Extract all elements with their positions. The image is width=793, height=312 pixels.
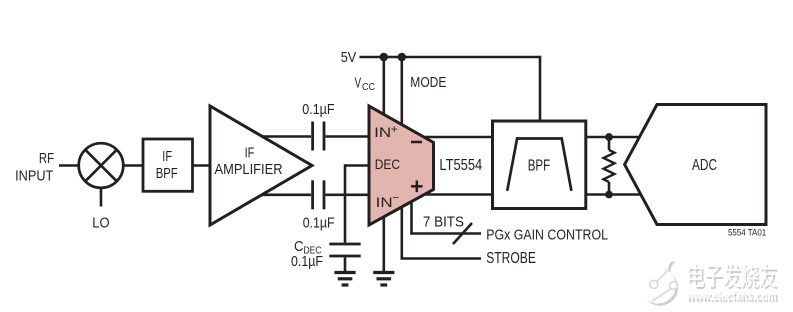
svg-text:DEC: DEC [375,156,400,172]
svg-text:MODE: MODE [410,74,446,91]
svg-text:BPF: BPF [156,165,178,182]
svg-text:INPUT: INPUT [15,167,53,184]
svg-text:PGx GAIN CONTROL: PGx GAIN CONTROL [486,227,608,244]
svg-text:+: + [391,124,398,136]
svg-text:0.1µF: 0.1µF [303,215,335,232]
svg-text:IF: IF [162,148,172,165]
svg-text:IN: IN [376,194,393,210]
svg-text:LT5554: LT5554 [439,157,482,174]
svg-text:5554 TA01: 5554 TA01 [728,227,766,238]
svg-text:IN: IN [374,124,391,140]
svg-text:RF: RF [39,150,54,167]
svg-text:电子发烧友: 电子发烧友 [686,263,777,291]
svg-text:0.1µF: 0.1µF [291,253,323,270]
svg-text:www.elecfans.com: www.elecfans.com [685,288,776,303]
svg-text:IF: IF [245,144,255,161]
svg-text:AMPLIFIER: AMPLIFIER [215,161,283,178]
svg-text:CC: CC [362,81,375,93]
svg-text:BPF: BPF [528,158,551,175]
svg-text:0.1µF: 0.1µF [302,101,334,118]
svg-text:STROBE: STROBE [486,250,536,267]
svg-text:ADC: ADC [692,157,717,174]
svg-text:−: − [393,193,400,205]
svg-text:5V: 5V [341,49,357,66]
svg-text:LO: LO [92,215,109,232]
svg-text:7 BITS: 7 BITS [423,213,464,230]
svg-text:V: V [355,75,362,92]
